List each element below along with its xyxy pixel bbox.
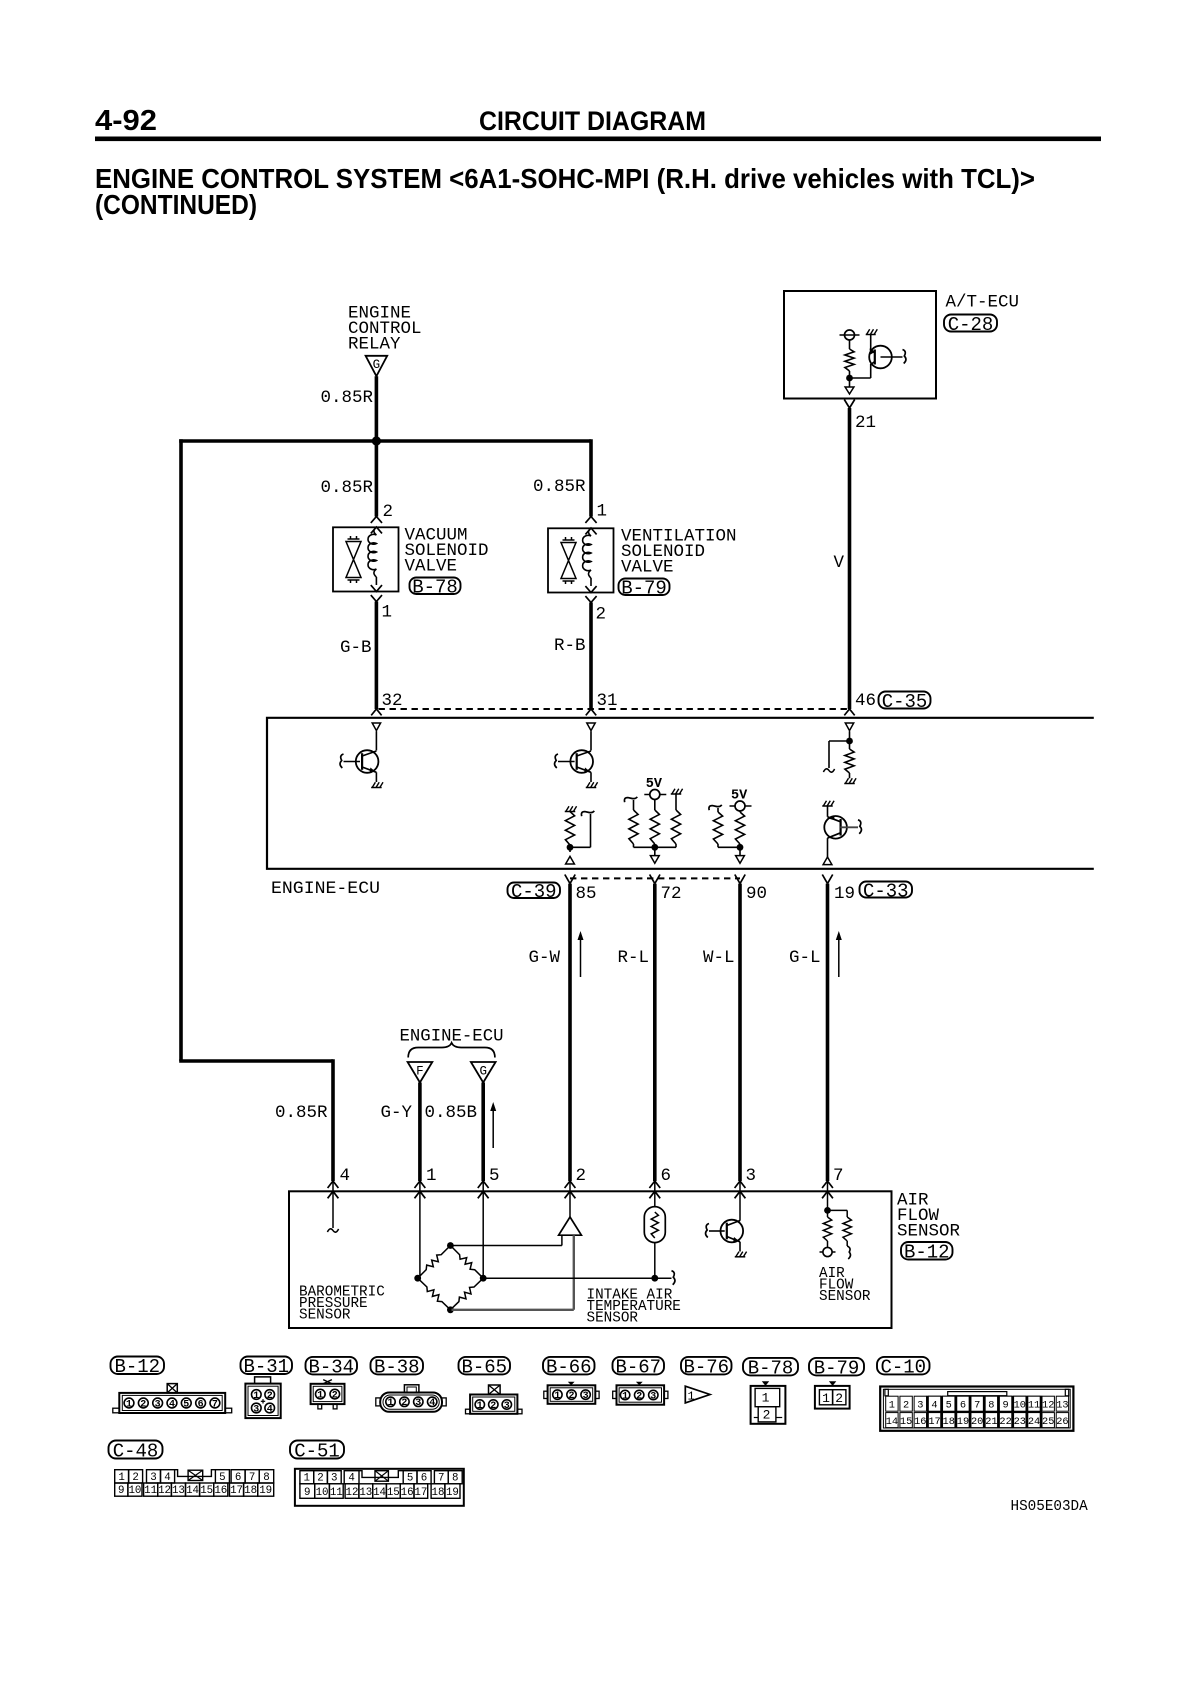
vacuum valve bottom chevrons — [371, 585, 382, 591]
svg-text:5: 5 — [946, 1400, 952, 1412]
transistor (pin 19 driver) — [827, 806, 829, 817]
pin 90 left resistor with curl — [709, 805, 722, 810]
svg-text:3: 3 — [415, 1398, 421, 1409]
svg-text:B-31: B-31 — [243, 1356, 289, 1378]
pin 72 input arrow — [654, 847, 656, 855]
svg-text:2: 2 — [568, 1391, 574, 1402]
pin 72 bottom bus — [634, 846, 677, 848]
svg-text:4: 4 — [169, 1399, 175, 1410]
svg-text:90: 90 — [746, 884, 767, 904]
pin 85 terminal fork — [565, 875, 570, 884]
sensor pin 2 terminal chevrons — [565, 1181, 576, 1188]
connector C-48 drawing — [115, 1470, 129, 1483]
svg-text:F: F — [416, 1065, 424, 1079]
svg-text:19: 19 — [957, 1416, 969, 1428]
connector B-65 drawing — [489, 1385, 501, 1395]
vacuum valve symbol — [348, 538, 360, 540]
connector B-67 drawing — [636, 1382, 643, 1386]
A/T-ECU internal junction — [849, 371, 851, 381]
svg-text:18: 18 — [432, 1487, 445, 1499]
svg-text:B-65: B-65 — [461, 1357, 507, 1379]
svg-text:A/T-ECU: A/T-ECU — [946, 293, 1020, 313]
pin 46 branch wire — [829, 740, 850, 742]
svg-text:10: 10 — [128, 1485, 141, 1497]
wire bridge top to amplifier — [450, 1245, 562, 1247]
pin 31 terminal fork — [586, 709, 596, 715]
svg-text:3: 3 — [253, 1404, 259, 1415]
svg-text:5: 5 — [489, 1166, 500, 1186]
svg-text:16: 16 — [214, 1485, 227, 1497]
svg-text:B-78: B-78 — [412, 577, 458, 599]
capsule B-78 (gallery) — [743, 1358, 798, 1376]
svg-text:3: 3 — [150, 1472, 156, 1484]
svg-text:G-B: G-B — [340, 638, 372, 658]
svg-text:B-79: B-79 — [621, 578, 667, 600]
junction node — [372, 436, 381, 445]
svg-text:3: 3 — [504, 1401, 510, 1412]
svg-text:G-L: G-L — [789, 948, 821, 968]
svg-text:6: 6 — [421, 1473, 427, 1485]
dashed bus C-39 (pins 85-72-90) — [570, 877, 740, 879]
pin 85 output arrow — [566, 856, 575, 864]
svg-text:6: 6 — [960, 1400, 966, 1412]
wire left drop (long run to barometric sensor) — [179, 439, 183, 1061]
wire 0.85R to vacuum solenoid valve pin 2 — [375, 441, 379, 517]
air flow sensor terminal circle — [827, 1241, 829, 1248]
capsule C-48 (gallery) — [109, 1441, 163, 1459]
bridge node left — [414, 1275, 421, 1282]
svg-text:VALVE: VALVE — [621, 558, 674, 578]
svg-text:4: 4 — [267, 1404, 273, 1415]
svg-text:2: 2 — [576, 1166, 587, 1186]
pin 4 tilde — [327, 1229, 338, 1232]
bridge node bottom — [447, 1306, 454, 1313]
svg-text:15: 15 — [200, 1485, 213, 1497]
sensor pin 1 terminal chevrons — [415, 1181, 426, 1188]
chassis hatch (pin 85) — [565, 811, 576, 813]
A/T-ECU internal ground arrow — [849, 381, 851, 387]
svg-text:SENSOR: SENSOR — [587, 1310, 639, 1326]
svg-text:SENSOR: SENSOR — [897, 1222, 961, 1242]
svg-text:2: 2 — [317, 1473, 323, 1485]
connector B-79 drawing — [829, 1381, 836, 1386]
svg-text:14: 14 — [373, 1487, 386, 1499]
bridge node right — [480, 1275, 487, 1282]
svg-text:G-Y: G-Y — [381, 1103, 413, 1123]
pin 46 junction — [846, 738, 853, 745]
svg-text:C-51: C-51 — [294, 1440, 340, 1462]
svg-text:C-35: C-35 — [882, 691, 928, 713]
connector C-10 drawing — [880, 1387, 1073, 1431]
ground hatch (pin 3 transistor) — [735, 1256, 746, 1258]
svg-text:12: 12 — [1042, 1400, 1054, 1412]
pin 46 pull resistor — [845, 749, 854, 773]
svg-text:0.85R: 0.85R — [533, 477, 586, 497]
svg-text:15: 15 — [900, 1416, 912, 1428]
air flow sensor resistor (right) — [843, 1217, 851, 1241]
svg-text:(CONTINUED): (CONTINUED) — [95, 189, 257, 220]
capsule C-10 (gallery) — [877, 1357, 930, 1375]
capsule B-66 (gallery) — [543, 1357, 595, 1375]
barometric bridge resistor (top-left) — [418, 1246, 451, 1279]
svg-text:8: 8 — [988, 1400, 994, 1412]
transistor (pin 3, intake sensor) — [721, 1220, 744, 1243]
svg-text:17: 17 — [414, 1487, 427, 1499]
pin 90 junction — [737, 844, 744, 851]
svg-text:17: 17 — [230, 1485, 243, 1497]
wire G-L (pin 19 to sensor pin 7) — [826, 884, 830, 1181]
wire G-B to ECU pin 32 — [375, 602, 379, 710]
svg-text:17: 17 — [928, 1416, 940, 1428]
svg-text:CIRCUIT DIAGRAM: CIRCUIT DIAGRAM — [479, 106, 706, 136]
connector B-31 drawing — [255, 1377, 271, 1384]
svg-text:3: 3 — [331, 1473, 337, 1485]
A/T-ECU internal chassis hatch — [866, 334, 876, 336]
pin 90 input arrow — [739, 847, 741, 855]
svg-text:2: 2 — [267, 1391, 273, 1402]
svg-text:8: 8 — [452, 1473, 458, 1485]
sensor pin 4 terminal chevrons — [328, 1181, 339, 1188]
svg-text:B-67: B-67 — [615, 1357, 661, 1379]
wire bridge right to intake junction — [483, 1277, 671, 1279]
wire R-L (pin 72 to sensor pin 6) — [653, 884, 657, 1181]
svg-text:16: 16 — [401, 1487, 414, 1499]
flow arrow (G-W) — [580, 937, 582, 977]
capsule C-35 — [879, 692, 931, 709]
ventilation valve coil — [589, 528, 592, 536]
air flow sensor junction — [824, 1207, 831, 1214]
capsule B-38 (gallery) — [371, 1357, 424, 1375]
capsule C-51 (gallery) — [290, 1441, 344, 1459]
capsule B-76 (gallery) — [681, 1357, 732, 1375]
sensor pin 7 terminal chevrons — [822, 1181, 833, 1188]
wire bottom jog to pin 4 — [179, 1059, 333, 1063]
svg-text:6: 6 — [661, 1166, 672, 1186]
svg-text:R-B: R-B — [554, 636, 586, 656]
svg-text:7: 7 — [438, 1473, 444, 1485]
svg-text:12: 12 — [158, 1485, 171, 1497]
svg-text:10: 10 — [1014, 1400, 1026, 1412]
A/T-ECU pin 21 fork — [844, 400, 849, 409]
svg-text:1: 1 — [622, 1391, 628, 1402]
svg-text:7: 7 — [212, 1399, 218, 1410]
vent pin 1 terminal chevrons — [585, 517, 596, 523]
capsule B-31 (gallery) — [241, 1357, 293, 1375]
svg-text:18: 18 — [943, 1416, 955, 1428]
ventilation solenoid valve box B-79 — [548, 528, 614, 592]
svg-text:0.85R: 0.85R — [321, 388, 374, 408]
bridge node top — [447, 1242, 454, 1249]
svg-text:2: 2 — [903, 1400, 909, 1412]
svg-text:4: 4 — [340, 1166, 351, 1186]
svg-text:1: 1 — [762, 1391, 770, 1406]
connector B-38 drawing — [404, 1385, 419, 1393]
svg-text:3: 3 — [650, 1391, 656, 1402]
svg-text:12: 12 — [346, 1487, 359, 1499]
air flow sensor resistor (left) — [823, 1217, 831, 1241]
svg-text:25: 25 — [1042, 1416, 1054, 1428]
svg-text:11: 11 — [144, 1485, 157, 1497]
pin 19 terminal fork — [822, 875, 827, 884]
svg-text:4-92: 4-92 — [95, 105, 157, 137]
A/T-ECU internal transistor — [869, 346, 892, 369]
svg-text:7: 7 — [833, 1166, 844, 1186]
capsule B-79 (gallery) — [809, 1358, 864, 1376]
svg-text:14: 14 — [186, 1485, 199, 1497]
svg-text:7: 7 — [974, 1400, 980, 1412]
connector triangle G (ECU) — [471, 1062, 496, 1083]
ventilation valve bottom chevrons — [585, 586, 596, 592]
svg-text:2: 2 — [835, 1391, 843, 1406]
ground hatch (pin 31 driver) — [586, 787, 597, 789]
svg-text:8: 8 — [263, 1472, 269, 1484]
pin 2 terminal chevrons — [371, 517, 382, 523]
ground hatch (pin 46) — [849, 773, 851, 778]
vacuum solenoid valve box B-78 — [333, 527, 399, 591]
svg-text:G: G — [373, 358, 381, 372]
capsule B-12 (gallery) — [111, 1357, 165, 1375]
svg-text:SENSOR: SENSOR — [299, 1307, 351, 1323]
wire 0.85R to ventilation valve pin 1 — [589, 439, 593, 516]
A/T-ECU internal wire to transistor — [870, 335, 872, 352]
pin 7 wire to air flow sensor — [827, 1181, 829, 1217]
svg-text:RELAY: RELAY — [348, 335, 401, 355]
svg-text:B-12: B-12 — [904, 1242, 950, 1264]
svg-text:1: 1 — [382, 603, 393, 623]
wire 0.85R from relay triangle — [375, 376, 379, 441]
svg-text:6: 6 — [235, 1472, 241, 1484]
svg-text:0.85R: 0.85R — [275, 1103, 328, 1123]
svg-text:C-39: C-39 — [511, 881, 557, 903]
A/T-ECU internal wire to transistor emitter — [850, 377, 871, 379]
svg-text:19: 19 — [259, 1485, 272, 1497]
capsule B-34 (gallery) — [306, 1357, 358, 1375]
wire R-B to ECU pin 31 — [589, 603, 593, 710]
barometric bridge resistor (top-right) — [450, 1246, 483, 1279]
connector B-66 drawing — [568, 1382, 575, 1386]
pin 32 terminal fork — [371, 709, 381, 715]
svg-text:18: 18 — [244, 1485, 257, 1497]
svg-text:1: 1 — [304, 1473, 310, 1485]
svg-text:B-38: B-38 — [374, 1357, 420, 1379]
svg-text:3: 3 — [917, 1400, 923, 1412]
vacuum valve coil — [374, 527, 377, 535]
svg-text:1: 1 — [387, 1398, 393, 1409]
wire V from A/T-ECU pin 21 to ECU pin 46 — [848, 408, 852, 709]
pin 72 terminal fork — [650, 875, 655, 884]
svg-text:B-12: B-12 — [114, 1356, 160, 1378]
svg-text:1: 1 — [597, 502, 608, 522]
svg-text:2: 2 — [140, 1399, 146, 1410]
svg-text:2: 2 — [132, 1472, 138, 1484]
intake wire curl — [672, 1271, 675, 1285]
connector B-76 drawing — [685, 1386, 710, 1403]
svg-text:2: 2 — [383, 502, 394, 522]
svg-text:W-L: W-L — [703, 948, 735, 968]
pin 72 right resistor with hatch — [671, 793, 682, 795]
svg-text:46: 46 — [855, 691, 876, 711]
svg-text:11: 11 — [330, 1487, 343, 1499]
pin 31 input triangle — [587, 723, 595, 731]
pin 90 terminal fork — [735, 875, 740, 884]
capsule C-39 — [508, 883, 561, 899]
svg-text:VALVE: VALVE — [405, 557, 458, 577]
pin 72 middle resistor — [654, 800, 656, 811]
intake sensor wire down — [654, 1243, 656, 1279]
svg-text:1: 1 — [253, 1391, 259, 1402]
transistor (pin 31 driver) — [570, 750, 593, 773]
svg-text:1: 1 — [426, 1166, 437, 1186]
capsule B-79 (valve) — [619, 579, 670, 596]
svg-text:1: 1 — [317, 1390, 323, 1401]
wire G-Y from triangle F — [418, 1083, 422, 1182]
svg-text:2: 2 — [401, 1398, 407, 1409]
capsule B-12 (air flow sensor) — [901, 1242, 953, 1260]
svg-text:1: 1 — [688, 1390, 695, 1404]
capsule B-65 (gallery) — [459, 1357, 511, 1375]
svg-text:3: 3 — [746, 1166, 757, 1186]
connector B-78 drawing — [762, 1381, 769, 1386]
svg-text:1: 1 — [118, 1472, 124, 1484]
pin 46 input triangle — [845, 723, 853, 731]
svg-text:26: 26 — [1056, 1416, 1068, 1428]
barometric bridge resistor (bottom-left) — [418, 1278, 451, 1310]
svg-text:2: 2 — [636, 1391, 642, 1402]
svg-text:20: 20 — [971, 1416, 983, 1428]
svg-text:3: 3 — [583, 1391, 589, 1402]
svg-text:13: 13 — [172, 1485, 185, 1497]
svg-text:11: 11 — [1028, 1400, 1040, 1412]
svg-text:HS05E03DA: HS05E03DA — [1011, 1499, 1089, 1515]
svg-text:V: V — [834, 553, 845, 573]
svg-text:13: 13 — [1056, 1400, 1068, 1412]
flow arrow (G-L) — [838, 937, 840, 977]
header rule — [95, 137, 1101, 142]
pin 85 junction — [567, 844, 574, 851]
svg-text:4: 4 — [164, 1472, 170, 1484]
svg-text:C-10: C-10 — [880, 1357, 926, 1379]
capsule B-78 (valve) — [410, 578, 461, 595]
svg-text:5: 5 — [219, 1472, 225, 1484]
A/T-ECU box — [784, 291, 936, 399]
pin 19 output arrow — [823, 857, 832, 865]
wire amplifier to bridge bottom — [573, 1235, 575, 1310]
svg-text:1: 1 — [477, 1401, 483, 1412]
flow arrow (0.85B) — [492, 1108, 494, 1148]
pin 72 left resistor with curl — [624, 797, 637, 802]
svg-text:G: G — [479, 1065, 487, 1079]
barometric bridge resistor (bottom-right) — [450, 1278, 483, 1310]
svg-text:6: 6 — [198, 1399, 204, 1410]
pin 5 wire into bridge — [482, 1181, 484, 1278]
capsule B-67 (gallery) — [613, 1357, 665, 1375]
svg-text:B-78: B-78 — [748, 1358, 794, 1380]
svg-text:B-34: B-34 — [308, 1357, 354, 1379]
svg-text:1: 1 — [126, 1399, 132, 1410]
wire 0.85B from triangle G — [481, 1083, 485, 1182]
svg-text:ENGINE-ECU: ENGINE-ECU — [271, 879, 380, 899]
wire G-W (pin 85 to sensor pin 2) — [568, 884, 572, 1181]
chassis hatch (pin 19) — [822, 805, 833, 807]
svg-text:B-66: B-66 — [546, 1357, 592, 1379]
connector B-12 drawing — [119, 1393, 225, 1413]
pin 85 resistor — [565, 812, 574, 846]
svg-text:1: 1 — [889, 1400, 895, 1412]
svg-text:21: 21 — [855, 413, 876, 433]
air flow sensor branch — [828, 1209, 848, 1211]
ventilation valve symbol — [563, 539, 575, 541]
svg-text:24: 24 — [1028, 1416, 1040, 1428]
capsule C-33 — [860, 882, 913, 898]
svg-text:14: 14 — [886, 1416, 898, 1428]
A/T-ECU internal wire — [849, 340, 851, 349]
intake air temperature sensor element — [644, 1207, 665, 1243]
svg-text:G-W: G-W — [529, 948, 561, 968]
svg-text:5: 5 — [183, 1399, 189, 1410]
svg-text:5: 5 — [407, 1473, 413, 1485]
A/T-ECU internal node circle — [840, 334, 860, 336]
svg-text:10: 10 — [316, 1487, 329, 1499]
svg-text:72: 72 — [661, 884, 682, 904]
svg-text:4: 4 — [348, 1473, 354, 1485]
svg-text:3: 3 — [155, 1399, 161, 1410]
pin 90 pull resistor — [739, 811, 741, 812]
svg-text:4: 4 — [931, 1400, 937, 1412]
pin 90 bottom bus — [718, 846, 740, 848]
wire horizontal bus to ventilation valve — [179, 439, 591, 443]
capsule C-28 — [944, 315, 997, 332]
svg-text:9: 9 — [1002, 1400, 1008, 1412]
svg-text:15: 15 — [387, 1487, 400, 1499]
svg-text:C-28: C-28 — [948, 314, 994, 336]
ground hatch (pin 32 driver) — [371, 787, 382, 789]
pin 46 branch tilde — [823, 769, 834, 772]
connector B-34 drawing — [323, 1380, 332, 1384]
air flow sensor right curl — [846, 1241, 848, 1246]
svg-text:2: 2 — [596, 605, 607, 625]
air flow sensor box B-12 — [289, 1191, 892, 1328]
svg-text:19: 19 — [446, 1487, 459, 1499]
svg-text:9: 9 — [118, 1485, 124, 1497]
svg-text:0.85R: 0.85R — [321, 478, 374, 498]
wire W-L (pin 90 to sensor pin 3) — [738, 884, 742, 1181]
pin 6 wire to intake sensor — [654, 1181, 656, 1207]
svg-text:2: 2 — [332, 1390, 338, 1401]
pin 72 junction — [651, 844, 658, 851]
svg-text:1: 1 — [554, 1391, 560, 1402]
svg-text:2: 2 — [763, 1408, 771, 1423]
svg-text:B-76: B-76 — [683, 1357, 729, 1379]
pin 4 stub wire — [332, 1181, 334, 1228]
svg-text:C-33: C-33 — [863, 880, 909, 902]
brace (ENGINE-ECU F/G) — [408, 1043, 495, 1058]
transistor (pin 32 driver) — [356, 750, 379, 773]
svg-text:23: 23 — [1014, 1416, 1026, 1428]
svg-text:B-79: B-79 — [814, 1358, 860, 1380]
pin 1 wire into bridge — [419, 1181, 421, 1278]
svg-text:21: 21 — [985, 1416, 997, 1428]
sensor pin 6 terminal chevrons — [649, 1181, 660, 1188]
svg-text:SENSOR: SENSOR — [819, 1289, 871, 1305]
pin 3 wire to transistor — [739, 1181, 741, 1221]
svg-text:C-48: C-48 — [113, 1440, 159, 1462]
svg-text:1: 1 — [822, 1391, 830, 1406]
svg-text:22: 22 — [999, 1416, 1011, 1428]
svg-text:19: 19 — [834, 884, 855, 904]
amplifier triangle — [559, 1217, 582, 1235]
connector C-51 drawing — [295, 1469, 464, 1506]
connector triangle F — [408, 1062, 433, 1083]
